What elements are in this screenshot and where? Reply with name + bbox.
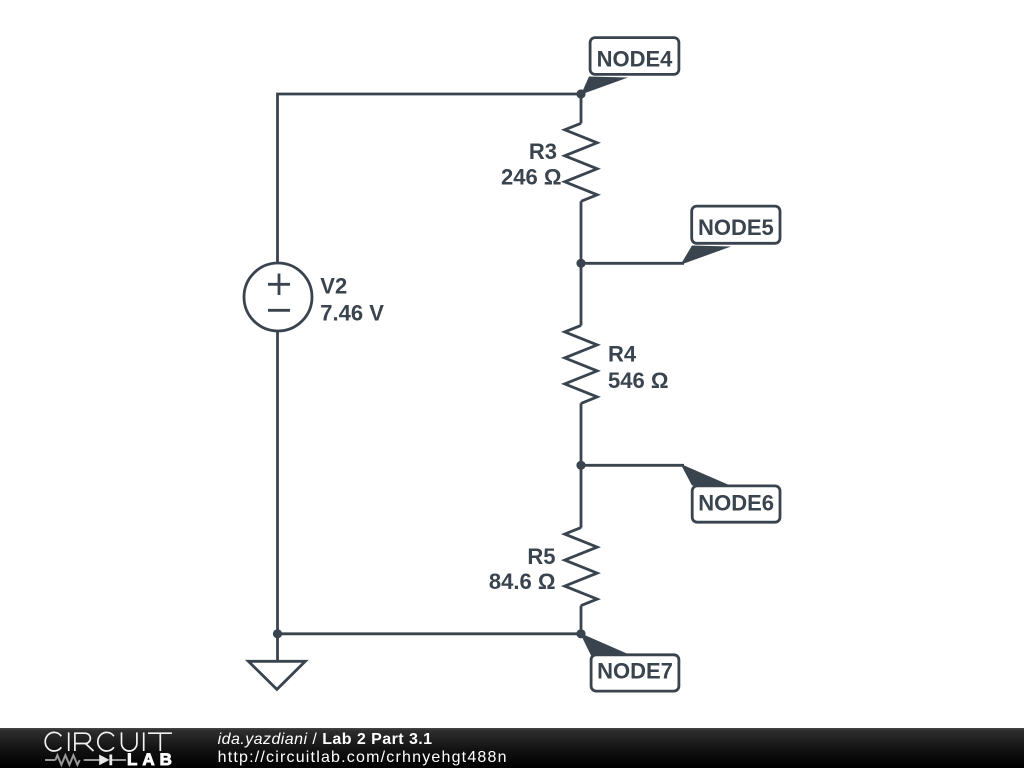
svg-text:ida.yazdiani / Lab 2 Part 3.1: ida.yazdiani / Lab 2 Part 3.1: [218, 731, 433, 748]
svg-text:NODE5: NODE5: [698, 215, 774, 240]
svg-text:246 Ω: 246 Ω: [501, 165, 561, 190]
svg-text:R3: R3: [529, 139, 557, 164]
svg-text:V2: V2: [320, 274, 347, 299]
svg-text:84.6 Ω: 84.6 Ω: [489, 569, 556, 594]
svg-text:http://circuitlab.com/crhnyehg: http://circuitlab.com/crhnyehgt488n: [218, 749, 508, 766]
svg-text:LAB: LAB: [127, 750, 177, 768]
svg-text:546 Ω: 546 Ω: [608, 368, 668, 393]
svg-text:R5: R5: [527, 544, 555, 569]
svg-text:R4: R4: [608, 342, 637, 367]
svg-text:NODE4: NODE4: [597, 47, 674, 72]
svg-text:7.46 V: 7.46 V: [320, 300, 384, 325]
svg-text:NODE6: NODE6: [698, 491, 774, 516]
svg-text:NODE7: NODE7: [597, 659, 673, 684]
